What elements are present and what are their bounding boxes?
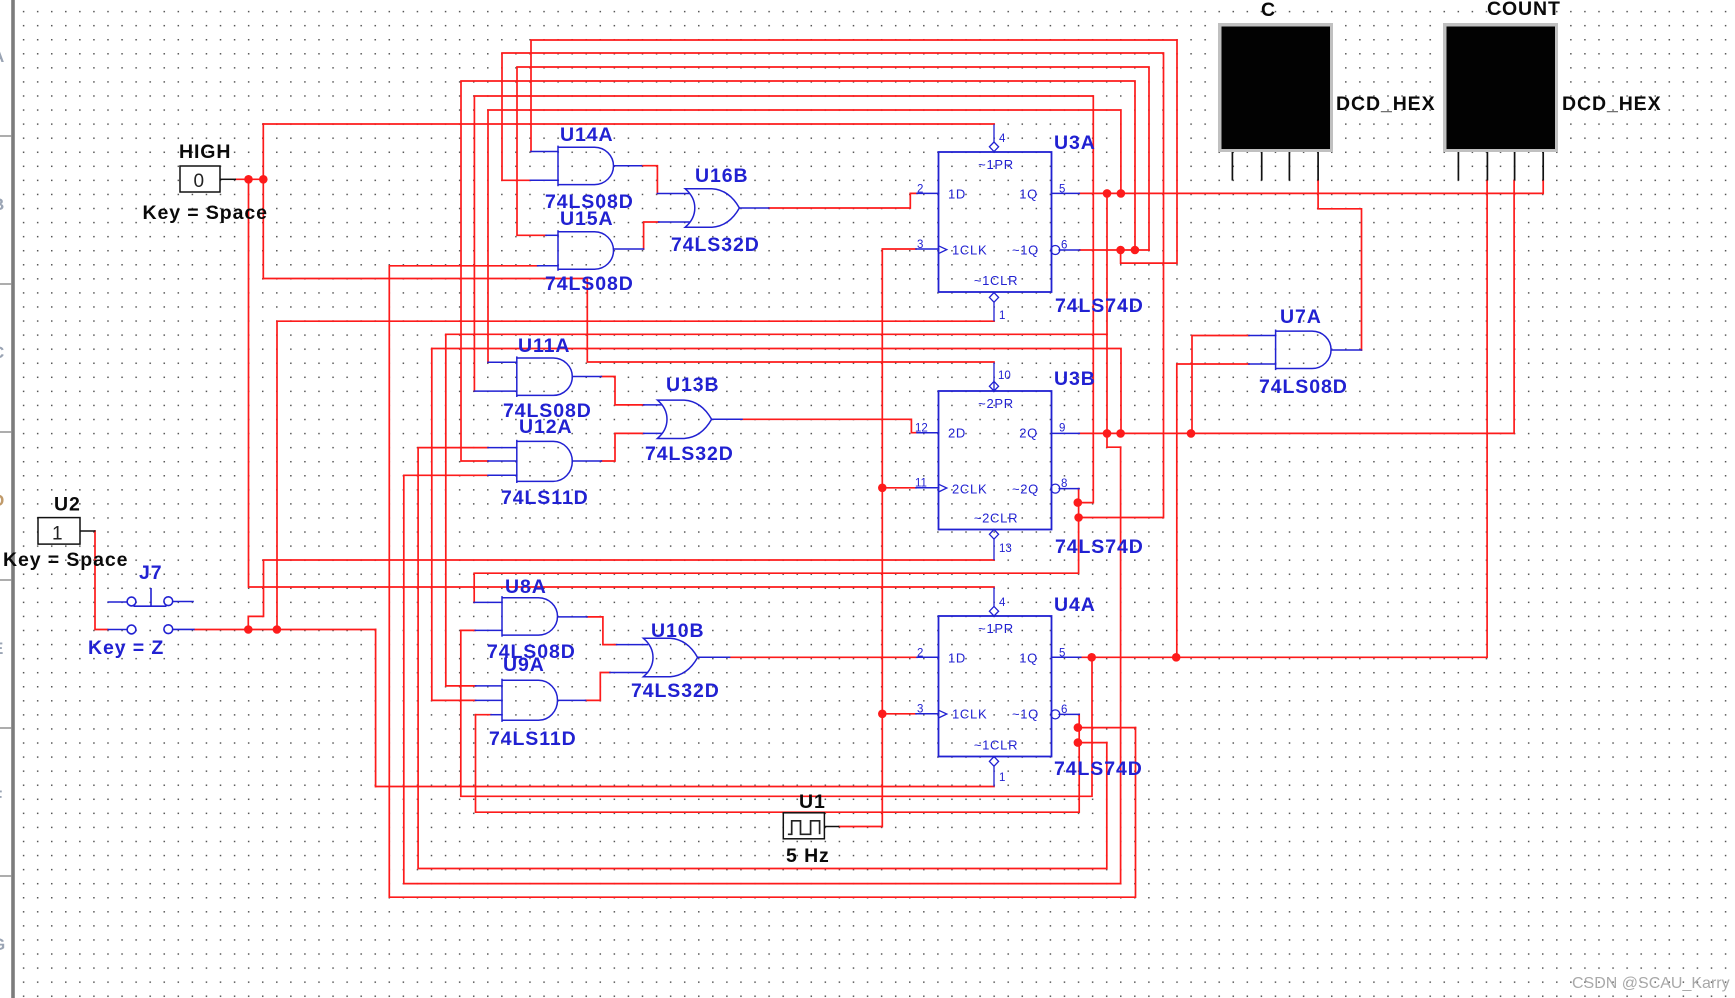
- svg-text:Key = Space: Key = Space: [3, 549, 128, 571]
- svg-text:U7A: U7A: [1280, 306, 1322, 328]
- svg-text:U13B: U13B: [666, 374, 719, 396]
- svg-text:U8A: U8A: [505, 576, 547, 598]
- svg-text:J7: J7: [139, 562, 163, 584]
- svg-text:~1PR: ~1PR: [978, 621, 1014, 636]
- svg-text:C: C: [0, 343, 4, 362]
- svg-text:4: 4: [999, 133, 1006, 145]
- svg-text:5: 5: [1059, 184, 1065, 196]
- svg-text:CSDN @SCAU_Karry: CSDN @SCAU_Karry: [1572, 975, 1730, 992]
- svg-text:74LS32D: 74LS32D: [631, 680, 720, 702]
- svg-text:U1: U1: [799, 791, 826, 813]
- svg-text:74LS74D: 74LS74D: [1054, 758, 1143, 780]
- svg-text:1D: 1D: [948, 187, 966, 202]
- svg-text:10: 10: [998, 370, 1011, 382]
- svg-text:D: D: [0, 491, 4, 510]
- svg-text:8: 8: [1061, 478, 1067, 490]
- svg-text:3: 3: [917, 239, 923, 251]
- svg-text:6: 6: [1061, 240, 1067, 252]
- svg-text:74LS32D: 74LS32D: [671, 234, 760, 256]
- svg-text:B: B: [0, 195, 4, 214]
- svg-text:~2CLR: ~2CLR: [974, 511, 1018, 526]
- svg-text:U16B: U16B: [695, 165, 748, 187]
- svg-text:~1CLR: ~1CLR: [974, 738, 1018, 753]
- svg-text:U11A: U11A: [518, 335, 570, 357]
- svg-text:COUNT: COUNT: [1487, 0, 1561, 20]
- svg-text:5 Hz: 5 Hz: [786, 845, 830, 867]
- svg-text:2D: 2D: [948, 426, 966, 441]
- svg-text:1: 1: [999, 310, 1005, 322]
- svg-text:U12A: U12A: [519, 416, 572, 438]
- svg-text:DCD_HEX: DCD_HEX: [1562, 93, 1662, 115]
- svg-text:13: 13: [999, 543, 1012, 555]
- svg-text:~2Q: ~2Q: [1012, 482, 1039, 497]
- svg-text:~1Q: ~1Q: [1012, 707, 1039, 722]
- svg-text:74LS32D: 74LS32D: [645, 443, 734, 465]
- svg-text:2CLK: 2CLK: [952, 482, 987, 497]
- svg-text:74LS74D: 74LS74D: [1055, 536, 1144, 558]
- svg-text:U2: U2: [54, 494, 81, 516]
- svg-text:C: C: [1261, 0, 1276, 21]
- svg-text:6: 6: [1061, 704, 1067, 716]
- svg-text:U15A: U15A: [560, 208, 613, 230]
- svg-text:2: 2: [917, 184, 923, 196]
- svg-text:1Q: 1Q: [1019, 187, 1038, 202]
- svg-text:~1Q: ~1Q: [1012, 243, 1039, 258]
- svg-text:U10B: U10B: [651, 620, 704, 642]
- svg-text:3: 3: [917, 704, 923, 716]
- svg-text:12: 12: [915, 423, 928, 435]
- svg-text:E: E: [0, 639, 3, 658]
- svg-text:2: 2: [917, 648, 923, 660]
- svg-text:0: 0: [194, 171, 205, 192]
- svg-text:~2PR: ~2PR: [978, 396, 1014, 411]
- svg-text:G: G: [0, 935, 5, 954]
- svg-text:1: 1: [999, 772, 1005, 784]
- svg-text:HIGH: HIGH: [179, 141, 231, 163]
- svg-text:U9A: U9A: [503, 654, 545, 676]
- svg-text:74LS08D: 74LS08D: [545, 273, 634, 295]
- svg-text:~1CLR: ~1CLR: [974, 273, 1018, 288]
- svg-text:1D: 1D: [948, 651, 966, 666]
- svg-text:U3A: U3A: [1054, 132, 1096, 154]
- svg-text:74LS74D: 74LS74D: [1055, 295, 1144, 317]
- svg-text:A: A: [0, 47, 4, 66]
- svg-text:U14A: U14A: [560, 124, 613, 146]
- svg-text:Key = Z: Key = Z: [88, 637, 164, 659]
- svg-text:5: 5: [1059, 648, 1065, 660]
- svg-text:74LS11D: 74LS11D: [501, 487, 589, 509]
- svg-text:Key = Space: Key = Space: [143, 202, 268, 224]
- svg-text:11: 11: [915, 478, 927, 490]
- svg-text:74LS11D: 74LS11D: [489, 728, 577, 750]
- svg-text:U3B: U3B: [1054, 368, 1096, 390]
- svg-text:1Q: 1Q: [1019, 651, 1038, 666]
- svg-text:1CLK: 1CLK: [952, 243, 987, 258]
- svg-text:F: F: [0, 787, 2, 806]
- svg-text:1: 1: [52, 524, 63, 545]
- svg-text:~1PR: ~1PR: [978, 157, 1014, 172]
- svg-text:4: 4: [999, 597, 1006, 609]
- svg-text:DCD_HEX: DCD_HEX: [1336, 93, 1436, 115]
- svg-text:2Q: 2Q: [1019, 426, 1038, 441]
- svg-text:74LS08D: 74LS08D: [1259, 376, 1348, 398]
- svg-text:U4A: U4A: [1054, 594, 1096, 616]
- svg-text:1CLK: 1CLK: [952, 707, 987, 722]
- svg-text:9: 9: [1059, 423, 1065, 435]
